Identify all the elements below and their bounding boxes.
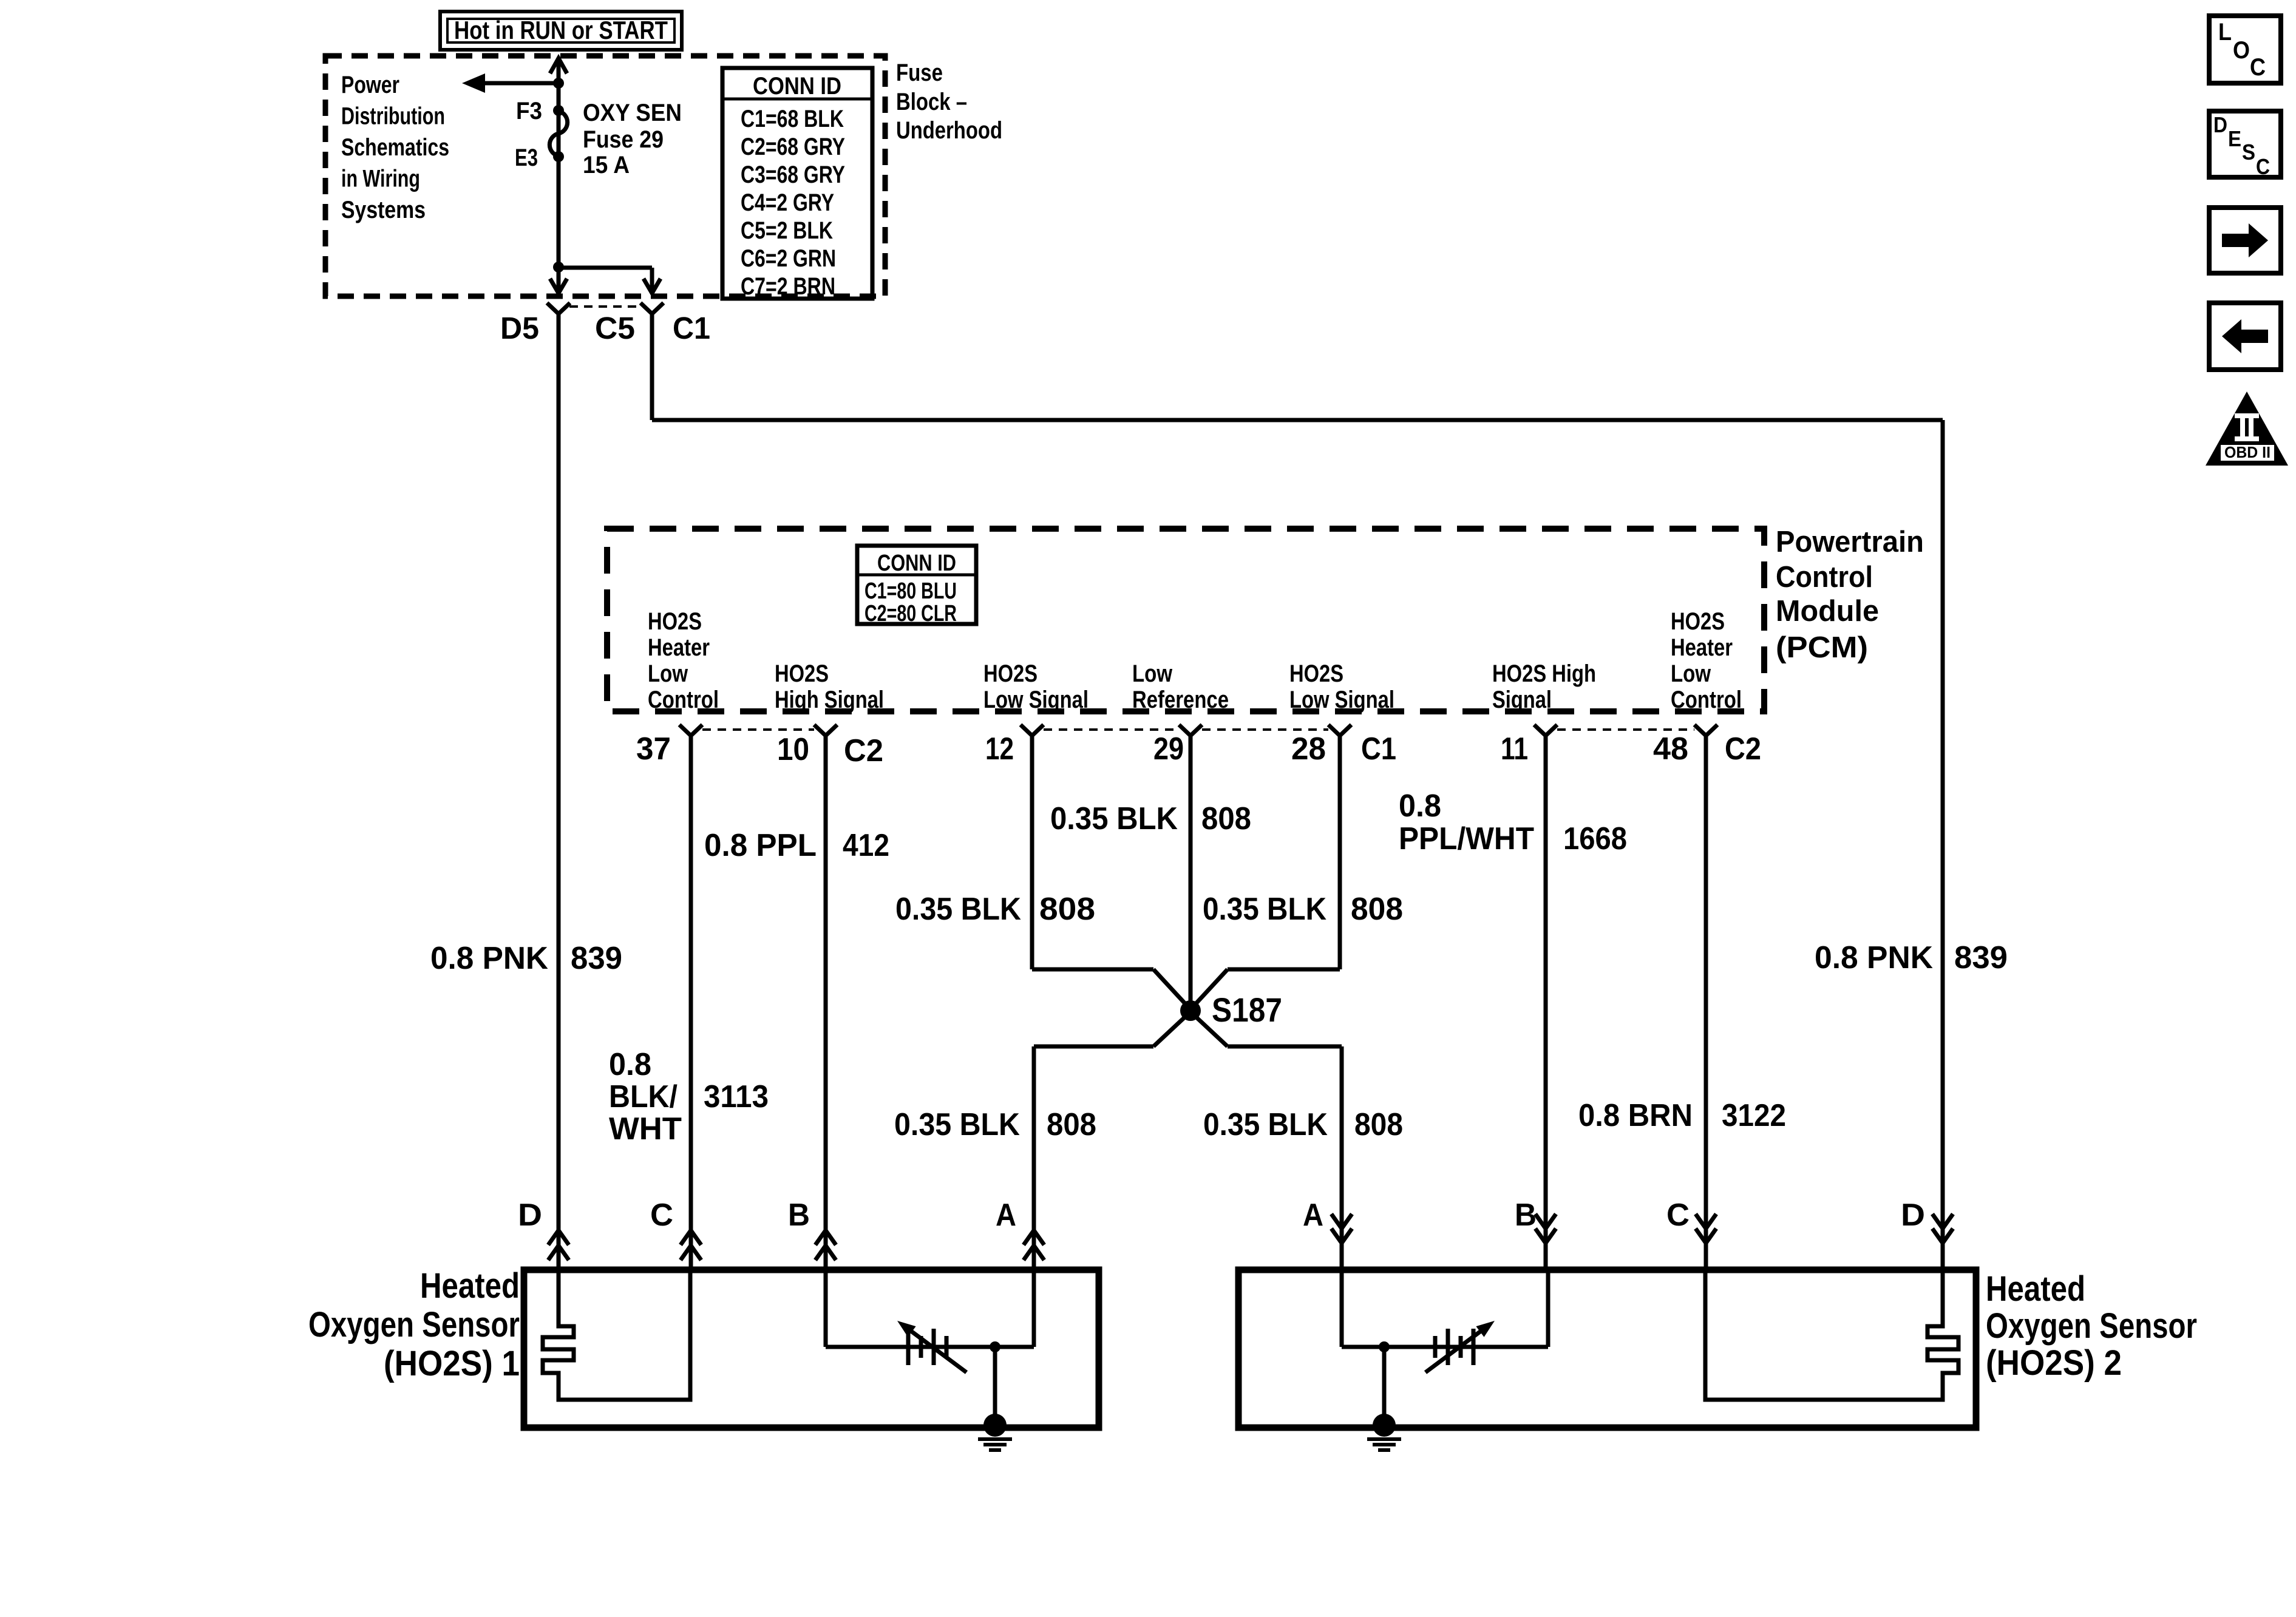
svg-text:C1: C1 [1361, 731, 1396, 767]
svg-text:Oxygen Sensor: Oxygen Sensor [308, 1305, 520, 1344]
svg-text:PPL/WHT: PPL/WHT [1399, 821, 1534, 856]
svg-text:0.8: 0.8 [609, 1047, 651, 1082]
svg-text:Low Signal: Low Signal [1289, 686, 1394, 713]
svg-text:B: B [1515, 1198, 1537, 1233]
svg-text:D5: D5 [500, 311, 539, 345]
svg-text:C6=2 GRN: C6=2 GRN [741, 245, 836, 272]
svg-text:A: A [1303, 1198, 1323, 1233]
svg-text:C2: C2 [844, 733, 883, 768]
svg-text:C1=80 BLU: C1=80 BLU [864, 578, 957, 604]
svg-text:Control: Control [1776, 561, 1873, 594]
svg-text:CONN ID: CONN ID [753, 73, 841, 100]
svg-text:Oxygen Sensor: Oxygen Sensor [1986, 1306, 2197, 1346]
svg-text:Module: Module [1776, 595, 1879, 628]
svg-text:C: C [2250, 54, 2266, 81]
svg-text:E3: E3 [515, 144, 538, 171]
svg-text:(PCM): (PCM) [1776, 631, 1868, 664]
svg-text:HO2S High: HO2S High [1492, 660, 1596, 687]
svg-text:OBD II: OBD II [2224, 443, 2271, 461]
svg-text:Fuse 29: Fuse 29 [583, 126, 664, 153]
svg-text:808: 808 [1047, 1107, 1096, 1142]
svg-text:D: D [518, 1198, 542, 1233]
svg-text:11: 11 [1501, 731, 1528, 767]
svg-text:L: L [2218, 19, 2232, 46]
svg-text:808: 808 [1354, 1107, 1403, 1142]
svg-text:S187: S187 [1212, 991, 1282, 1029]
svg-text:0.8 PNK: 0.8 PNK [1815, 940, 1933, 975]
svg-text:0.35 BLK: 0.35 BLK [1203, 892, 1326, 927]
svg-text:CONN ID: CONN ID [877, 551, 956, 576]
svg-text:0.8: 0.8 [1399, 788, 1441, 824]
svg-text:C5: C5 [595, 311, 635, 345]
svg-text:48: 48 [1653, 731, 1688, 767]
svg-text:3122: 3122 [1722, 1098, 1786, 1133]
svg-text:0.8 PNK: 0.8 PNK [430, 941, 548, 976]
svg-text:Distribution: Distribution [341, 103, 445, 130]
svg-text:Reference: Reference [1132, 686, 1229, 713]
svg-text:E: E [2228, 126, 2241, 151]
svg-text:12: 12 [985, 731, 1014, 767]
svg-text:Fuse: Fuse [896, 59, 943, 86]
svg-text:C: C [650, 1198, 673, 1233]
svg-text:0.8 BRN: 0.8 BRN [1578, 1098, 1693, 1133]
svg-text:808: 808 [1201, 801, 1251, 836]
svg-text:412: 412 [843, 828, 889, 863]
svg-text:D: D [2213, 112, 2227, 137]
svg-text:A: A [996, 1198, 1016, 1233]
svg-text:F3: F3 [516, 98, 542, 124]
svg-text:Schematics: Schematics [341, 134, 449, 161]
svg-text:0.35 BLK: 0.35 BLK [1050, 801, 1178, 836]
svg-text:Systems: Systems [341, 197, 426, 223]
svg-text:O: O [2233, 37, 2250, 64]
svg-text:15 A: 15 A [583, 152, 630, 178]
svg-text:OXY SEN: OXY SEN [583, 100, 682, 126]
svg-text:C1: C1 [673, 311, 710, 345]
svg-text:B: B [788, 1198, 810, 1233]
svg-text:0.35 BLK: 0.35 BLK [895, 892, 1021, 927]
svg-text:Heated: Heated [1986, 1269, 2085, 1309]
svg-text:10: 10 [777, 732, 809, 767]
svg-text:Control: Control [648, 686, 719, 713]
svg-text:High Signal: High Signal [775, 686, 884, 713]
svg-text:C: C [2256, 154, 2270, 179]
svg-text:Control: Control [1671, 686, 1742, 713]
svg-text:29: 29 [1153, 731, 1184, 767]
svg-text:C2=68 GRY: C2=68 GRY [741, 134, 845, 160]
svg-text:Heater: Heater [1671, 634, 1733, 661]
svg-text:(HO2S) 1: (HO2S) 1 [384, 1344, 520, 1383]
svg-text:37: 37 [636, 731, 671, 767]
svg-text:1668: 1668 [1563, 821, 1627, 856]
svg-text:D: D [1901, 1198, 1925, 1233]
svg-text:0.8 PPL: 0.8 PPL [704, 828, 817, 863]
svg-text:HO2S: HO2S [983, 660, 1038, 687]
svg-text:Powertrain: Powertrain [1776, 526, 1924, 558]
svg-text:C2: C2 [1725, 731, 1761, 767]
svg-text:HO2S: HO2S [648, 608, 702, 635]
svg-text:C7=2 BRN: C7=2 BRN [741, 273, 835, 300]
svg-text:28: 28 [1291, 731, 1326, 767]
svg-text:C: C [1666, 1198, 1690, 1233]
svg-text:808: 808 [1351, 892, 1403, 927]
svg-text:(HO2S) 2: (HO2S) 2 [1986, 1343, 2122, 1383]
svg-text:Heated: Heated [420, 1266, 520, 1306]
svg-text:C4=2 GRY: C4=2 GRY [741, 189, 834, 216]
svg-text:C5=2 BLK: C5=2 BLK [741, 217, 833, 244]
svg-text:Low Signal: Low Signal [983, 686, 1089, 713]
svg-text:WHT: WHT [609, 1111, 682, 1147]
svg-text:C1=68 BLK: C1=68 BLK [741, 106, 844, 132]
svg-text:Underhood: Underhood [896, 117, 1002, 144]
svg-text:808: 808 [1039, 892, 1095, 927]
svg-text:3113: 3113 [704, 1079, 769, 1114]
svg-text:Low: Low [648, 660, 688, 687]
svg-text:HO2S: HO2S [775, 660, 829, 687]
svg-text:Block –: Block – [896, 89, 967, 115]
svg-text:0.35 BLK: 0.35 BLK [894, 1107, 1020, 1142]
svg-text:HO2S: HO2S [1671, 608, 1725, 635]
svg-text:Heater: Heater [648, 634, 710, 661]
svg-text:Low: Low [1671, 660, 1711, 687]
svg-text:S: S [2242, 140, 2255, 164]
svg-text:HO2S: HO2S [1289, 660, 1343, 687]
svg-text:BLK/: BLK/ [609, 1079, 678, 1114]
svg-text:Power: Power [341, 72, 399, 98]
svg-text:839: 839 [571, 941, 622, 976]
svg-text:C3=68 GRY: C3=68 GRY [741, 161, 845, 188]
svg-text:839: 839 [1954, 940, 2008, 975]
svg-text:Signal: Signal [1492, 686, 1552, 713]
svg-text:Hot in RUN or START: Hot in RUN or START [454, 16, 668, 44]
svg-text:0.35 BLK: 0.35 BLK [1203, 1107, 1328, 1142]
svg-text:Low: Low [1132, 660, 1173, 687]
svg-text:in Wiring: in Wiring [341, 166, 420, 192]
svg-text:C2=80 CLR: C2=80 CLR [864, 601, 957, 626]
